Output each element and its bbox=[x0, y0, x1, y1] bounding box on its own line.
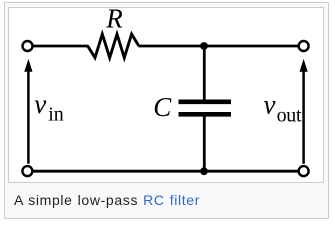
capacitor C plates bbox=[179, 102, 232, 115]
svg-text:in: in bbox=[48, 104, 64, 126]
terminal bottom-left bbox=[22, 166, 32, 176]
svg-text:R: R bbox=[105, 8, 123, 34]
arrow v_in head bbox=[24, 59, 32, 72]
svg-text:C: C bbox=[153, 92, 172, 122]
caption bbox=[14, 192, 200, 208]
image box bbox=[8, 7, 324, 183]
node junction top bbox=[200, 42, 208, 50]
wire capacitor bottom lead bbox=[203, 114, 206, 171]
svg-text:v: v bbox=[34, 89, 46, 119]
wire top-right (resistor to output terminal) bbox=[139, 45, 299, 48]
svg-text:out: out bbox=[277, 104, 302, 126]
arrow v_out head bbox=[300, 59, 308, 72]
terminal top-left bbox=[23, 41, 33, 51]
node junction bottom bbox=[200, 167, 208, 175]
terminal top-right bbox=[299, 41, 309, 51]
arrow v_in shaft bbox=[27, 71, 30, 164]
terminal bottom-right bbox=[299, 166, 309, 176]
arrow v_out shaft bbox=[302, 71, 305, 164]
resistor R bbox=[88, 34, 139, 58]
wire bottom rail bbox=[32, 170, 298, 173]
svg-text:v: v bbox=[264, 90, 276, 120]
wire top-left (input terminal to resistor) bbox=[33, 45, 89, 48]
wire capacitor top lead bbox=[203, 46, 206, 102]
